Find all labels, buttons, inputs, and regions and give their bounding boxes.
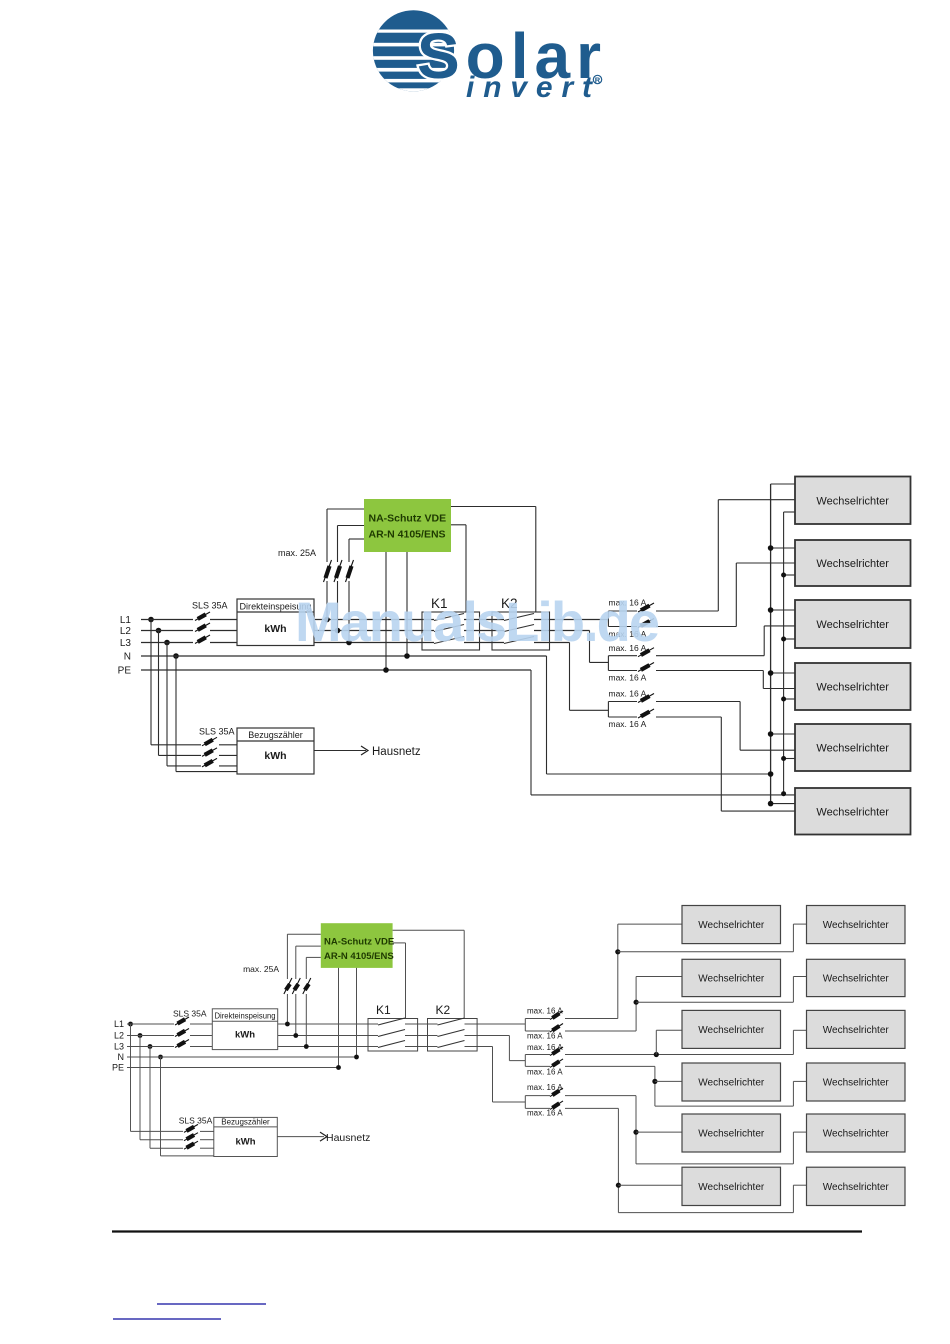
svg-text:Hausnetz: Hausnetz [372, 746, 421, 758]
svg-text:max. 16 A: max. 16 A [527, 1083, 563, 1092]
svg-text:L2: L2 [120, 626, 132, 637]
svg-text:L1: L1 [114, 1019, 124, 1029]
svg-text:Wechselrichter: Wechselrichter [823, 920, 890, 931]
svg-text:NA-Schutz VDE: NA-Schutz VDE [324, 937, 394, 948]
svg-text:Wechselrichter: Wechselrichter [698, 1078, 765, 1089]
svg-text:Wechselrichter: Wechselrichter [823, 973, 890, 984]
svg-text:Wechselrichter: Wechselrichter [698, 920, 765, 931]
svg-text:Wechselrichter: Wechselrichter [816, 495, 889, 507]
svg-text:max. 16 A: max. 16 A [527, 1007, 563, 1016]
svg-text:Wechselrichter: Wechselrichter [816, 743, 889, 755]
svg-text:max. 16 A: max. 16 A [527, 1043, 563, 1052]
svg-text:SLS 35A: SLS 35A [192, 601, 228, 611]
svg-text:kWh: kWh [235, 1137, 255, 1148]
svg-text:Wechselrichter: Wechselrichter [823, 1078, 890, 1089]
svg-text:Wechselrichter: Wechselrichter [823, 1025, 890, 1036]
svg-text:max. 16 A: max. 16 A [609, 673, 647, 683]
svg-text:L2: L2 [114, 1031, 124, 1041]
svg-text:Wechselrichter: Wechselrichter [698, 1182, 765, 1193]
svg-text:K1: K1 [376, 1003, 391, 1017]
svg-text:Bezugszähler: Bezugszähler [221, 1118, 270, 1127]
svg-text:K2: K2 [436, 1003, 451, 1017]
svg-text:L1: L1 [120, 615, 132, 626]
svg-text:invert: invert [466, 71, 594, 104]
svg-text:max. 25A: max. 25A [243, 964, 279, 974]
svg-text:N: N [118, 1052, 125, 1062]
svg-text:Wechselrichter: Wechselrichter [816, 806, 889, 818]
svg-text:N: N [124, 652, 131, 663]
svg-text:max. 25A: max. 25A [278, 548, 316, 558]
svg-text:NA-Schutz VDE: NA-Schutz VDE [369, 513, 447, 525]
svg-text:max. 16 A: max. 16 A [527, 1068, 563, 1077]
svg-text:AR-N 4105/ENS: AR-N 4105/ENS [369, 529, 446, 541]
svg-text:Direkteinspeisung: Direkteinspeisung [215, 1011, 276, 1020]
svg-text:Hausnetz: Hausnetz [326, 1132, 370, 1144]
svg-text:Solar: Solar [417, 20, 601, 92]
svg-text:Wechselrichter: Wechselrichter [816, 682, 889, 694]
svg-text:max. 16 A: max. 16 A [527, 1032, 563, 1041]
svg-text:Wechselrichter: Wechselrichter [698, 973, 765, 984]
svg-text:max. 16 A: max. 16 A [527, 1109, 563, 1118]
svg-text:kWh: kWh [264, 623, 286, 635]
svg-text:kWh: kWh [264, 750, 286, 762]
svg-text:AR-N 4105/ENS: AR-N 4105/ENS [324, 951, 394, 962]
svg-text:SLS 35A: SLS 35A [173, 1009, 207, 1019]
svg-text:L3: L3 [120, 638, 132, 649]
svg-text:max. 16 A: max. 16 A [609, 689, 647, 699]
svg-text:Wechselrichter: Wechselrichter [823, 1129, 890, 1140]
svg-text:Wechselrichter: Wechselrichter [816, 619, 889, 631]
svg-text:ManualsLib.de: ManualsLib.de [295, 590, 660, 653]
svg-text:max. 16 A: max. 16 A [609, 719, 647, 729]
svg-text:Wechselrichter: Wechselrichter [816, 558, 889, 570]
svg-text:SLS 35A: SLS 35A [199, 727, 235, 737]
svg-text:R: R [595, 75, 601, 84]
svg-text:Wechselrichter: Wechselrichter [698, 1129, 765, 1140]
svg-text:Bezugszähler: Bezugszähler [248, 730, 303, 740]
svg-text:SLS 35A: SLS 35A [179, 1116, 213, 1126]
svg-text:PE: PE [118, 666, 132, 677]
svg-text:PE: PE [112, 1063, 124, 1073]
svg-text:kWh: kWh [235, 1030, 255, 1041]
svg-text:L3: L3 [114, 1042, 124, 1052]
svg-text:Wechselrichter: Wechselrichter [698, 1025, 765, 1036]
svg-text:Wechselrichter: Wechselrichter [823, 1182, 890, 1193]
